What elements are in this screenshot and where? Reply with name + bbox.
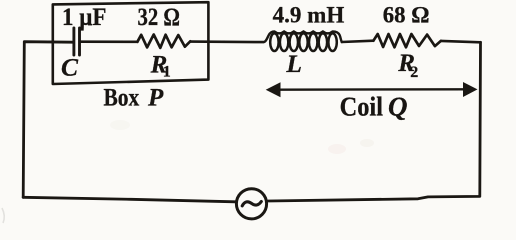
svg-text:32 Ω: 32 Ω (138, 4, 181, 31)
svg-text:1 μF: 1 μF (62, 4, 107, 31)
svg-text:68 Ω: 68 Ω (383, 3, 430, 29)
svg-text:L: L (285, 49, 302, 78)
svg-text:4.9 mH: 4.9 mH (273, 2, 345, 28)
svg-text:Coil: Coil (340, 91, 384, 121)
svg-text:C: C (61, 52, 79, 81)
svg-text:2: 2 (410, 64, 418, 81)
svg-text:P: P (147, 84, 164, 111)
svg-text:Q: Q (388, 91, 408, 121)
svg-text:Box: Box (104, 84, 140, 111)
svg-text:1: 1 (163, 64, 171, 81)
